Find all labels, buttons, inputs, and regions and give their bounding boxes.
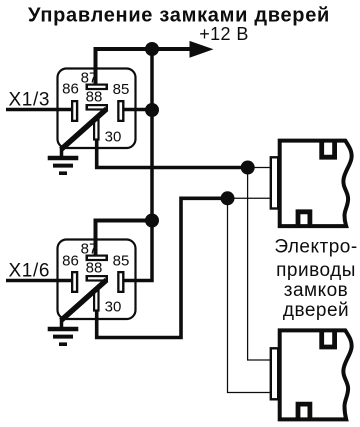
svg-text:30: 30 — [105, 298, 122, 315]
svg-text:85: 85 — [113, 253, 130, 270]
svg-text:X1/6: X1/6 — [9, 261, 51, 282]
svg-text:замков: замков — [284, 280, 349, 301]
svg-text:дверей: дверей — [283, 300, 349, 321]
svg-text:+12 В: +12 В — [199, 24, 249, 44]
svg-text:88: 88 — [86, 89, 103, 106]
svg-text:85: 85 — [113, 81, 130, 98]
svg-text:86: 86 — [62, 252, 79, 269]
svg-text:87: 87 — [81, 241, 98, 258]
svg-text:86: 86 — [62, 80, 79, 97]
svg-text:30: 30 — [105, 129, 122, 146]
svg-text:88: 88 — [86, 260, 103, 277]
svg-text:X1/3: X1/3 — [9, 90, 51, 111]
svg-text:Электро-: Электро- — [274, 237, 357, 258]
svg-text:Управление замками дверей: Управление замками дверей — [28, 5, 330, 27]
svg-text:87: 87 — [81, 70, 98, 87]
svg-text:приводы: приводы — [276, 260, 356, 281]
